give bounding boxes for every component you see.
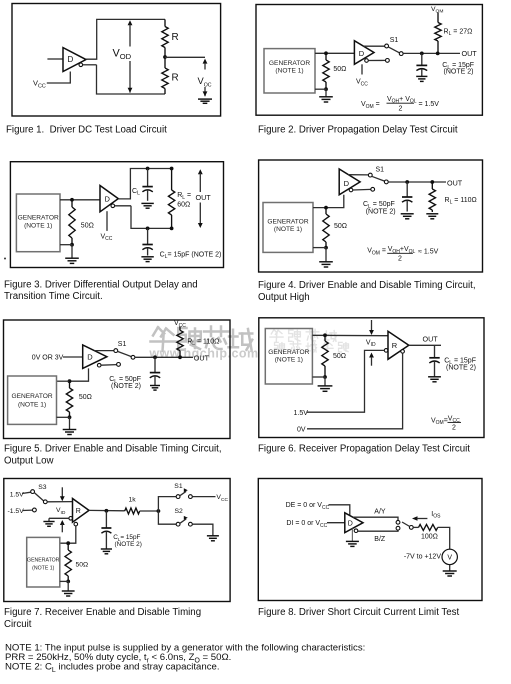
svg-text:(NOTE 2): (NOTE 2) [111,383,141,390]
svg-text:2: 2 [399,106,403,113]
svg-text:D: D [344,179,350,188]
svg-text:V: V [447,555,452,562]
svg-text:R: R [76,508,81,515]
svg-text:D: D [348,520,353,527]
svg-text:50Ω: 50Ω [333,66,346,73]
svg-text:0V OR 3V: 0V OR 3V [32,354,64,361]
svg-text:D: D [68,55,74,64]
svg-text:GENERATOR: GENERATOR [18,215,59,222]
svg-text:OUT: OUT [462,49,478,58]
svg-text:50Ω: 50Ω [81,223,94,230]
svg-text:(NOTE 1): (NOTE 1) [24,222,52,229]
svg-text:60Ω: 60Ω [177,202,190,209]
svg-text:(NOTE 2): (NOTE 2) [444,69,474,76]
svg-text:Circuit: Circuit [4,619,32,630]
svg-text:OUT: OUT [423,334,439,343]
svg-text:100Ω: 100Ω [421,533,438,540]
svg-text:D: D [87,353,93,362]
svg-text:Output High: Output High [258,292,310,303]
svg-text:D: D [359,49,365,58]
svg-text:S1: S1 [174,483,183,490]
svg-text:50Ω: 50Ω [79,394,92,401]
svg-text:S1: S1 [376,167,385,174]
svg-text:= 1.5V: = 1.5V [419,101,440,108]
svg-text:-1.5V: -1.5V [8,508,25,515]
svg-text:Figure 3. Driver Differential: Figure 3. Driver Differential Output Del… [4,279,198,290]
svg-text:Figure 7. Receiver Enable and: Figure 7. Receiver Enable and Disable Ti… [4,607,201,618]
svg-text:-7V to +12V: -7V to +12V [404,553,441,560]
svg-text:OUT: OUT [196,193,212,202]
svg-text:(NOTE 1): (NOTE 1) [275,67,303,74]
svg-text:(NOTE 1): (NOTE 1) [275,357,303,364]
svg-text:GENERATOR: GENERATOR [267,219,308,226]
svg-text:Figure 1. Driver DC Test Load: Figure 1. Driver DC Test Load Circuit [6,124,167,135]
svg-text:S1: S1 [118,341,127,348]
svg-text:B/Z: B/Z [374,536,386,543]
svg-text:≈ 1.5V: ≈ 1.5V [418,249,439,256]
svg-text:0V: 0V [297,427,306,434]
svg-text:50Ω: 50Ω [334,223,347,230]
svg-text:Figure 5. Driver Enable and Di: Figure 5. Driver Enable and Disable Timi… [4,444,222,455]
svg-text:2: 2 [452,425,456,432]
svg-text:50Ω: 50Ω [333,353,346,360]
svg-text:50Ω: 50Ω [76,561,89,568]
svg-text:(NOTE 1): (NOTE 1) [18,401,46,408]
svg-text:GENERATOR: GENERATOR [268,349,309,356]
svg-text:S1: S1 [390,37,399,44]
svg-text:GENERATOR: GENERATOR [269,60,310,67]
svg-text:R: R [172,32,179,43]
svg-text:Output Low: Output Low [4,456,55,467]
svg-text:Figure 4. Driver Enable and Di: Figure 4. Driver Enable and Disable Timi… [258,280,476,291]
svg-text:R: R [172,72,179,83]
svg-text:GENERATOR: GENERATOR [11,393,52,400]
svg-text:(NOTE 1): (NOTE 1) [32,566,54,572]
svg-text:NOTE 2: CL includes probe and: NOTE 2: CL includes probe and stray capa… [5,661,220,674]
svg-text:S2: S2 [175,508,184,515]
svg-text:S3: S3 [38,484,47,491]
svg-text:Transition Time Circuit.: Transition Time Circuit. [4,291,103,302]
svg-text:1.5V: 1.5V [10,492,24,499]
svg-text:(NOTE 1): (NOTE 1) [274,226,302,233]
svg-text:OUT: OUT [447,178,463,187]
svg-text:1.5V: 1.5V [294,410,309,417]
svg-text:R: R [392,341,398,350]
svg-text:1k: 1k [129,496,137,503]
svg-text:(NOTE 2): (NOTE 2) [446,364,476,371]
svg-text:A/Y: A/Y [374,509,386,516]
svg-text:Figure 8. Driver Short Circuit: Figure 8. Driver Short Circuit Current L… [258,607,459,618]
svg-text:D: D [105,194,111,203]
svg-text:GENERATOR: GENERATOR [27,557,60,563]
svg-text:2: 2 [398,255,402,262]
svg-text:Figure 6. Receiver Propagation: Figure 6. Receiver Propagation Delay Tes… [258,444,470,455]
svg-text:OUT: OUT [194,353,210,362]
svg-text:(NOTE 2): (NOTE 2) [366,208,396,215]
svg-text:Figure 2. Driver Propagation D: Figure 2. Driver Propagation Delay Test … [258,124,458,135]
svg-text:(NOTE 2): (NOTE 2) [115,541,142,548]
